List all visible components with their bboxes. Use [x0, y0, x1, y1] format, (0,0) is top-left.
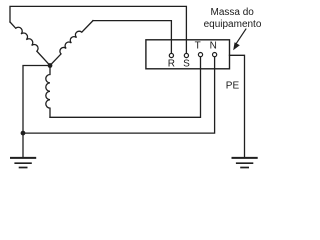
node neutral junction: [21, 131, 26, 136]
svg-text:S: S: [183, 58, 190, 69]
wire neutral from star point down to earth: [23, 66, 50, 158]
svg-text:Massa do: Massa do: [211, 7, 255, 18]
arrow pointing to equipment chassis bond: [236, 29, 246, 44]
terminal block outline: [146, 40, 230, 69]
ground right earth symbol: [232, 158, 258, 168]
terminal T pin circle: [198, 53, 202, 57]
wire from winding L2 to R terminal: [93, 21, 171, 54]
terminal N pin circle: [213, 53, 217, 57]
svg-text:T: T: [195, 41, 201, 52]
svg-text:R: R: [168, 58, 175, 69]
wire from left winding top to S terminal: [10, 6, 186, 53]
wire neutral branch to N terminal: [23, 57, 215, 133]
terminal R pin circle: [169, 53, 173, 57]
wire PE from terminal block to earth: [230, 55, 245, 157]
ground left earth symbol: [10, 158, 36, 168]
wire from winding L3 to T terminal: [50, 57, 201, 118]
winding L1 (left diagonal coil): [10, 22, 50, 66]
svg-text:PE: PE: [226, 81, 240, 92]
svg-text:equipamento: equipamento: [204, 19, 262, 30]
node star point: [48, 63, 53, 68]
terminal S pin circle: [184, 53, 188, 57]
winding L2 (right diagonal coil): [50, 21, 93, 66]
winding L3 (vertical coil): [46, 66, 50, 118]
svg-text:N: N: [210, 41, 217, 52]
